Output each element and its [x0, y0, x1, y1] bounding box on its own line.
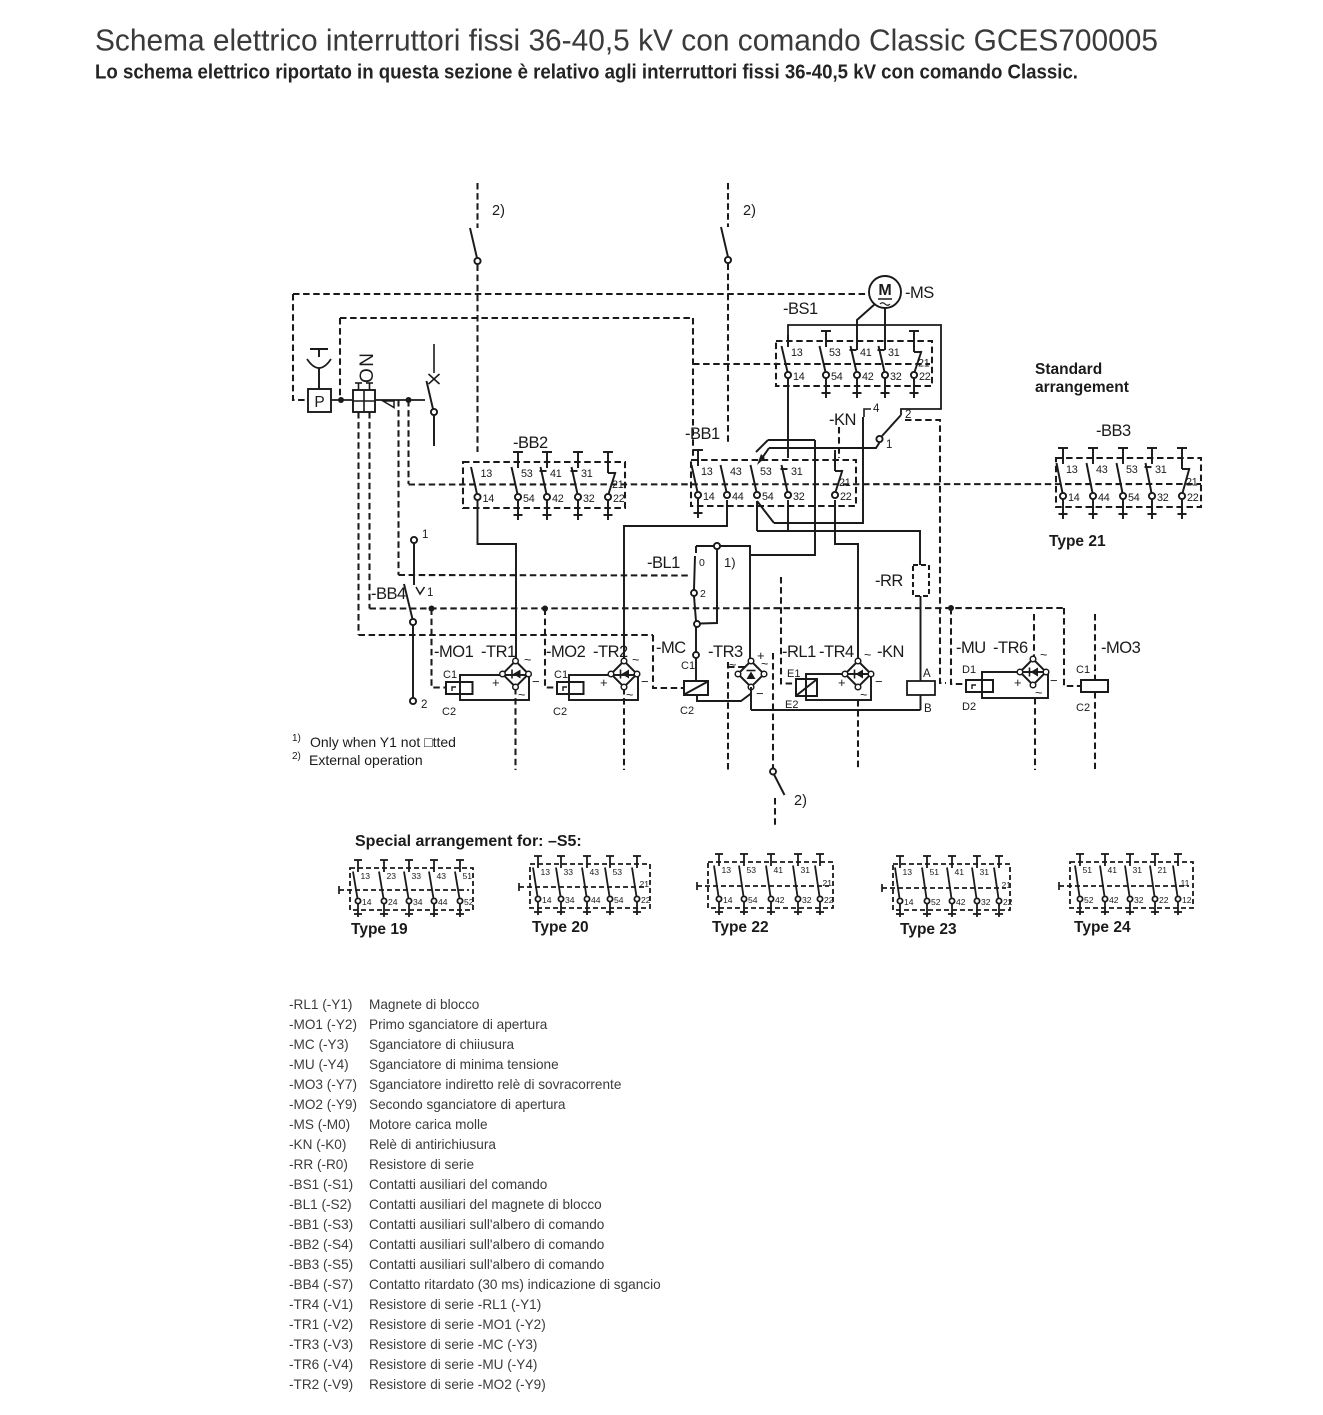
svg-text:-TR6 (-V4): -TR6 (-V4)	[289, 1357, 353, 1372]
svg-text:-RL1 (-Y1): -RL1 (-Y1)	[289, 997, 352, 1012]
junction node bus	[429, 606, 435, 612]
contact block Type 20	[530, 864, 650, 908]
svg-text:Sganciatore indiretto relè di: Sganciatore indiretto relè di sovracorre…	[369, 1077, 621, 1092]
wire dashed below TR2	[623, 688, 625, 770]
BS1 solid enclosure	[788, 325, 941, 415]
svg-text:-BB1: -BB1	[685, 425, 720, 443]
svg-text:44: 44	[1098, 492, 1110, 504]
svg-text:53: 53	[521, 468, 533, 480]
svg-text:22: 22	[613, 493, 625, 505]
svg-text:-MO3 (-Y7): -MO3 (-Y7)	[289, 1077, 357, 1092]
switch blade ext op 1	[470, 228, 477, 258]
svg-text:Motore carica molle: Motore carica molle	[369, 1117, 488, 1132]
svg-text:D1: D1	[962, 664, 976, 676]
svg-text:-MU: -MU	[956, 639, 986, 657]
wire vertical x863	[774, 417, 863, 523]
svg-text:14: 14	[1068, 492, 1080, 504]
wire BB1-22 to TR4	[835, 500, 858, 660]
svg-text:C2: C2	[680, 705, 694, 717]
svg-text:31: 31	[888, 347, 900, 359]
svg-text:-KN (-K0): -KN (-K0)	[289, 1137, 346, 1152]
svg-text:13: 13	[361, 871, 371, 881]
wire second frame left edge	[339, 318, 341, 396]
wire left dashed edge	[293, 294, 307, 400]
svg-text:-RR (-R0): -RR (-R0)	[289, 1157, 348, 1172]
svg-text:+: +	[838, 675, 846, 690]
svg-text:External operation: External operation	[309, 752, 423, 768]
svg-text:43: 43	[437, 871, 447, 881]
wire arrow into BB1 53	[760, 448, 769, 461]
svg-text:-BS1: -BS1	[783, 300, 818, 318]
svg-text:22: 22	[919, 371, 931, 383]
svg-text:~: ~	[729, 658, 736, 672]
svg-text:13: 13	[791, 347, 803, 359]
wire KN1 horizontal	[769, 443, 880, 449]
svg-text:51: 51	[463, 871, 473, 881]
svg-text:C1: C1	[1076, 664, 1090, 676]
svg-text:Primo sganciatore di apertura: Primo sganciatore di apertura	[369, 1017, 548, 1032]
wire TR3 bottom	[750, 687, 752, 710]
wire dashed branch to BS1	[693, 363, 930, 365]
svg-text:53: 53	[829, 347, 841, 359]
svg-text:1: 1	[427, 587, 433, 599]
wire ext op 1 lower dashed	[476, 265, 478, 453]
wire motor to BS1 contact 31	[884, 308, 886, 350]
svg-text:Type 22: Type 22	[712, 919, 769, 936]
wire dashed MO1 feeder	[432, 609, 447, 688]
svg-text:21: 21	[612, 479, 624, 491]
svg-text:54: 54	[762, 491, 774, 503]
svg-text:13: 13	[481, 468, 493, 480]
svg-text:-BB2 (-S4): -BB2 (-S4)	[289, 1237, 353, 1252]
svg-text:32: 32	[890, 371, 902, 383]
svg-text:E2: E2	[785, 699, 798, 711]
svg-text:32: 32	[793, 491, 805, 503]
svg-text:44: 44	[591, 895, 601, 905]
svg-text:21: 21	[1158, 865, 1168, 875]
wire dashed through MO3	[1094, 614, 1096, 680]
svg-text:C2: C2	[1076, 702, 1090, 714]
svg-text:14: 14	[483, 493, 495, 505]
svg-text:Secondo sganciatore di apertur: Secondo sganciatore di apertura	[369, 1097, 566, 1112]
assembly box RL1-TR4	[806, 674, 871, 700]
svg-text:21: 21	[1186, 477, 1198, 489]
svg-text:14: 14	[362, 897, 372, 907]
svg-text:-BB1 (-S3): -BB1 (-S3)	[289, 1217, 353, 1232]
node circle ext op 2	[725, 257, 731, 263]
svg-text:14: 14	[793, 371, 805, 383]
svg-text:-TR4: -TR4	[819, 643, 854, 661]
svg-text:52: 52	[1084, 895, 1094, 905]
disconnect switch with X	[433, 344, 435, 373]
BB2 contact 41/42	[542, 451, 552, 453]
switch ext op bottom	[770, 769, 776, 775]
svg-text:54: 54	[614, 895, 624, 905]
svg-text:22: 22	[824, 895, 834, 905]
svg-text:44: 44	[732, 491, 744, 503]
wire dashed MC feeder	[653, 635, 684, 688]
wire P to NO	[331, 399, 353, 401]
svg-text:24: 24	[388, 897, 398, 907]
svg-text:~: ~	[524, 653, 531, 667]
svg-text:−: −	[875, 674, 883, 689]
svg-text:13: 13	[701, 466, 713, 478]
svg-text:-MO1 (-Y2): -MO1 (-Y2)	[289, 1017, 357, 1032]
svg-text:Sganciatore di minima tensione: Sganciatore di minima tensione	[369, 1057, 559, 1072]
wire dashed RL1 feeder	[781, 577, 795, 684]
svg-text:53: 53	[747, 865, 757, 875]
svg-text:0: 0	[699, 557, 705, 569]
svg-text:Sganciatore di chiiusura: Sganciatore di chiiusura	[369, 1037, 515, 1052]
svg-text:Type 19: Type 19	[351, 921, 408, 938]
svg-text:Resistore di serie: Resistore di serie	[369, 1157, 474, 1172]
svg-text:~: ~	[1040, 648, 1047, 662]
svg-text:+: +	[1014, 675, 1022, 690]
svg-text:-BB4: -BB4	[371, 585, 406, 603]
svg-text:41: 41	[860, 347, 872, 359]
svg-text:Only when Y1 not □tted: Only when Y1 not □tted	[310, 734, 456, 750]
wire dashed MO2 feeder	[545, 609, 557, 688]
svg-text:C1: C1	[681, 660, 695, 672]
BB2 contact 53/54	[513, 451, 523, 453]
wire motor to BS1 contact 41	[857, 304, 875, 350]
svg-text:31: 31	[1133, 865, 1143, 875]
svg-text:Contatti ausiliari del comando: Contatti ausiliari del comando	[369, 1177, 547, 1192]
svg-text:Contatti ausiliari del magnete: Contatti ausiliari del magnete di blocco	[369, 1197, 602, 1212]
wire top dashed bus to motor	[293, 293, 869, 295]
svg-text:-BB3: -BB3	[1096, 422, 1131, 440]
svg-text:-MS: -MS	[905, 284, 934, 302]
wire bottom bus to KN B	[751, 709, 921, 711]
svg-text:-MO2: -MO2	[546, 643, 586, 661]
svg-text:+: +	[600, 675, 608, 690]
svg-text:-BL1: -BL1	[647, 554, 680, 572]
wire dashed TR3 left border	[727, 662, 729, 770]
svg-text:31: 31	[980, 867, 990, 877]
svg-text:Resistore di serie -MO1 (-Y2): Resistore di serie -MO1 (-Y2)	[369, 1317, 546, 1332]
wire dashed below TR1	[514, 688, 516, 770]
svg-text:Contatti ausiliari sull'albero: Contatti ausiliari sull'albero di comand…	[369, 1217, 604, 1232]
svg-text:53: 53	[760, 466, 772, 478]
svg-text:-MO1: -MO1	[434, 643, 474, 661]
svg-text:Resistore di serie -RL1 (-Y1): Resistore di serie -RL1 (-Y1)	[369, 1297, 541, 1312]
BS1 contact 53/54	[821, 330, 831, 332]
wire dashed MO3 feeder	[1064, 608, 1081, 686]
svg-text:1): 1)	[724, 555, 736, 570]
BS1 contact 21/22	[909, 330, 919, 332]
svg-text:4: 4	[873, 403, 880, 415]
wire external operation line 2 (dashed)	[727, 183, 729, 227]
wire dashed MU feeder	[951, 608, 966, 684]
svg-text:2): 2)	[794, 793, 807, 809]
svg-text:14: 14	[904, 897, 914, 907]
wire main lower bus (dashed)	[370, 607, 1065, 610]
wire second dashed bus	[340, 317, 693, 319]
BB3 contact 13/14	[1058, 447, 1068, 449]
svg-text:C1: C1	[554, 669, 568, 681]
svg-text:−: −	[1050, 673, 1058, 688]
svg-text:~: ~	[864, 648, 871, 662]
BB3 contact 21/22	[1177, 447, 1187, 449]
svg-text:32: 32	[1157, 492, 1169, 504]
svg-text:41: 41	[550, 468, 562, 480]
svg-text:31: 31	[581, 468, 593, 480]
svg-text:Type 21: Type 21	[1049, 533, 1106, 550]
BB3 contact 53/54	[1118, 447, 1128, 449]
svg-text:21: 21	[823, 878, 833, 888]
svg-text:-BS1 (-S1): -BS1 (-S1)	[289, 1177, 353, 1192]
svg-text:Magnete di blocco: Magnete di blocco	[369, 997, 479, 1012]
svg-text:54: 54	[523, 493, 535, 505]
wire dashed dropper NO-b	[368, 412, 370, 609]
wire bus BL1 (dashed)	[399, 574, 689, 577]
svg-text:Contatto ritardato (30 ms) ind: Contatto ritardato (30 ms) indicazione d…	[369, 1277, 661, 1292]
BB1 contact 21/22	[834, 454, 836, 466]
svg-text:1: 1	[886, 439, 892, 451]
svg-text:1: 1	[422, 529, 428, 541]
wire dashed below KN label	[838, 427, 840, 458]
svg-text:31: 31	[801, 865, 811, 875]
svg-text:-MU (-Y4): -MU (-Y4)	[289, 1057, 349, 1072]
wire dashed below TR4	[857, 700, 859, 769]
contact BB4 terminal 2	[410, 698, 416, 704]
wire ext op 2 lower dashed	[727, 264, 729, 446]
svg-text:51: 51	[1083, 865, 1093, 875]
wire BB1-44 to TR2	[624, 500, 727, 660]
svg-text:43: 43	[730, 466, 742, 478]
wire BB2-14 down to TR1	[478, 500, 517, 660]
svg-text:21: 21	[640, 879, 650, 889]
svg-text:22: 22	[1003, 897, 1013, 907]
svg-text:Type 20: Type 20	[532, 919, 589, 936]
svg-text:arrangement: arrangement	[1035, 379, 1129, 396]
svg-text:Type 24: Type 24	[1074, 919, 1131, 936]
BB2 contact 31/32	[573, 451, 583, 453]
wire BB1-32 down	[787, 500, 789, 531]
wire BB4 lower	[412, 626, 414, 698]
svg-text:54: 54	[831, 371, 843, 383]
svg-text:21: 21	[839, 477, 851, 489]
svg-text:22: 22	[641, 895, 651, 905]
svg-text:43: 43	[1096, 464, 1108, 476]
svg-text:1): 1)	[292, 733, 301, 744]
svg-text:-BB2: -BB2	[513, 434, 548, 452]
svg-text:31: 31	[791, 466, 803, 478]
wire 1) bypass	[720, 546, 750, 660]
svg-text:~: ~	[860, 688, 867, 702]
svg-text:44: 44	[438, 897, 448, 907]
BS1 contact 13/14	[787, 335, 789, 347]
svg-text:-BL1 (-S2): -BL1 (-S2)	[289, 1197, 352, 1212]
svg-text:12: 12	[1182, 895, 1192, 905]
svg-text:-TR2 (-V9): -TR2 (-V9)	[289, 1377, 353, 1392]
svg-text:−: −	[641, 674, 649, 689]
svg-text:42: 42	[862, 371, 874, 383]
wire dashed dropper to BL1 bus	[397, 400, 399, 575]
assembly box MO2-TR2	[569, 675, 638, 700]
contact BB4 terminal 1	[411, 537, 417, 543]
svg-text:M: M	[878, 282, 891, 299]
svg-text:~: ~	[632, 653, 639, 667]
svg-text:22: 22	[840, 491, 852, 503]
svg-text:14: 14	[703, 491, 715, 503]
BB1 contact 13/14	[693, 449, 703, 451]
svg-text:2): 2)	[292, 751, 301, 762]
svg-text:33: 33	[412, 871, 422, 881]
assembly box MO1-TR1	[460, 675, 529, 700]
svg-text:41: 41	[1108, 865, 1118, 875]
wire BB1-54 down	[756, 501, 758, 531]
svg-text:42: 42	[1109, 895, 1119, 905]
svg-text:23: 23	[387, 871, 397, 881]
svg-text:41: 41	[955, 867, 965, 877]
wire dashed through TR6	[1033, 614, 1035, 657]
svg-text:43: 43	[590, 867, 600, 877]
wire 54 diagonal	[757, 501, 774, 523]
svg-text:32: 32	[981, 897, 991, 907]
BS1 contact 13 lower wire to BB1 31	[787, 378, 789, 458]
wire bus BB2-BB1-BB3 (dashed)	[409, 483, 1202, 486]
svg-text:32: 32	[583, 493, 595, 505]
svg-text:-TR3: -TR3	[708, 643, 743, 661]
svg-text:13: 13	[1066, 464, 1078, 476]
svg-text:51: 51	[930, 867, 940, 877]
svg-text:C2: C2	[442, 706, 456, 718]
svg-text:-TR4 (-V1): -TR4 (-V1)	[289, 1297, 353, 1312]
svg-text:C1: C1	[443, 669, 457, 681]
wire dashed dropper NO-a	[357, 412, 359, 635]
svg-text:-TR1: -TR1	[481, 643, 516, 661]
BB2 contact 21/22	[603, 451, 613, 453]
svg-text:B: B	[924, 703, 932, 715]
svg-text:-BB3 (-S5): -BB3 (-S5)	[289, 1257, 353, 1272]
svg-text:2): 2)	[492, 203, 505, 219]
svg-text:-MO2 (-Y9): -MO2 (-Y9)	[289, 1097, 357, 1112]
flag symbol	[383, 401, 394, 408]
svg-text:-KN: -KN	[829, 411, 856, 429]
svg-text:54: 54	[748, 895, 758, 905]
contact block Type 19	[350, 868, 473, 910]
svg-text:~: ~	[626, 688, 633, 702]
svg-text:34: 34	[413, 897, 423, 907]
svg-text:-RR: -RR	[875, 572, 903, 590]
svg-text:22: 22	[1187, 492, 1199, 504]
svg-text:13: 13	[722, 865, 732, 875]
junction node	[406, 397, 412, 403]
wire dashed KN 2 to right dropper	[905, 420, 946, 683]
svg-text:P: P	[314, 394, 324, 411]
svg-text:22: 22	[1159, 895, 1169, 905]
svg-text:32: 32	[1134, 895, 1144, 905]
junction node bus	[948, 605, 954, 611]
assembly box MU-TR6	[982, 672, 1048, 698]
BB4 blade	[404, 584, 413, 619]
svg-text:−: −	[532, 674, 540, 689]
svg-text:-TR3 (-V3): -TR3 (-V3)	[289, 1337, 353, 1352]
svg-text:Schema elettrico interruttori: Schema elettrico interruttori fissi 36-4…	[95, 23, 1158, 58]
svg-text:-MS (-M0): -MS (-M0)	[289, 1117, 350, 1132]
svg-text:Lo schema elettrico riportato: Lo schema elettrico riportato in questa …	[95, 62, 1078, 84]
svg-text:Special arrangement for: –S5:: Special arrangement for: –S5:	[355, 833, 582, 850]
wire BL1 top circle to junction	[700, 549, 717, 624]
svg-text:~: ~	[761, 657, 768, 671]
svg-text:-TR6: -TR6	[993, 639, 1028, 657]
wire dashed column x773 with ext op	[772, 653, 774, 768]
svg-text:34: 34	[565, 895, 575, 905]
svg-text:−: −	[756, 686, 764, 701]
contact block Type 24	[1070, 862, 1193, 908]
svg-text:31: 31	[1155, 464, 1167, 476]
svg-text:Resistore di serie -MO2 (-Y9): Resistore di serie -MO2 (-Y9)	[369, 1377, 546, 1392]
svg-text:D2: D2	[962, 701, 976, 713]
svg-text:11: 11	[1181, 878, 1190, 888]
motor MS	[869, 276, 901, 308]
svg-text:54: 54	[1128, 492, 1140, 504]
svg-text:-BB4 (-S7): -BB4 (-S7)	[289, 1277, 353, 1292]
svg-text:2: 2	[700, 588, 706, 600]
svg-text:Standard: Standard	[1035, 361, 1102, 378]
svg-text:33: 33	[564, 867, 574, 877]
svg-text:14: 14	[723, 895, 733, 905]
contact block Type 22	[708, 862, 833, 908]
relay P	[308, 389, 331, 412]
wire vertical x815	[751, 440, 815, 555]
svg-text:53: 53	[1126, 464, 1138, 476]
svg-text:41: 41	[774, 865, 784, 875]
svg-text:-MC (-Y3): -MC (-Y3)	[289, 1037, 349, 1052]
svg-text:2: 2	[421, 699, 427, 711]
wire second frame right edge down to BB1	[692, 318, 694, 458]
svg-text:Resistore di serie -MU (-Y4): Resistore di serie -MU (-Y4)	[369, 1357, 537, 1372]
contact block NO	[353, 390, 375, 412]
svg-text:-TR1 (-V2): -TR1 (-V2)	[289, 1317, 353, 1332]
svg-text:A: A	[923, 668, 931, 680]
svg-text:13: 13	[541, 867, 551, 877]
svg-text:13: 13	[903, 867, 913, 877]
svg-text:Contatti ausiliari sull'albero: Contatti ausiliari sull'albero di comand…	[369, 1237, 604, 1252]
svg-text:21: 21	[1002, 880, 1012, 890]
svg-text:+: +	[492, 675, 500, 690]
svg-text:-RL1: -RL1	[782, 643, 816, 661]
svg-text:C2: C2	[553, 706, 567, 718]
BS1 dashed box	[776, 341, 932, 386]
svg-text:-MO3: -MO3	[1101, 639, 1141, 657]
contact block Type 23	[893, 864, 1010, 910]
wire coil feed bus (dashed)	[359, 634, 654, 636]
svg-text:52: 52	[931, 897, 941, 907]
svg-text:42: 42	[956, 897, 966, 907]
svg-text:-KN: -KN	[877, 643, 904, 661]
svg-text:Resistore di serie -MC (-Y3): Resistore di serie -MC (-Y3)	[369, 1337, 537, 1352]
svg-text:32: 32	[802, 895, 812, 905]
svg-text:53: 53	[613, 867, 623, 877]
node circle ext op 1	[474, 258, 480, 264]
wire parallelogram top	[756, 440, 768, 452]
svg-text:Type 23: Type 23	[900, 921, 957, 938]
wire NO to switch	[375, 399, 425, 401]
svg-text:ON: ON	[357, 352, 378, 384]
wire external operation line 1 (dashed)	[476, 183, 478, 228]
svg-text:42: 42	[552, 493, 564, 505]
svg-text:~: ~	[1035, 686, 1042, 700]
BB3 contact 43/44	[1088, 447, 1098, 449]
wire horizontal to RR	[757, 531, 920, 565]
svg-text:14: 14	[542, 895, 552, 905]
junction node bus	[542, 606, 548, 612]
junction node	[338, 397, 344, 403]
svg-text:52: 52	[464, 897, 474, 907]
svg-text:~: ~	[518, 688, 525, 702]
